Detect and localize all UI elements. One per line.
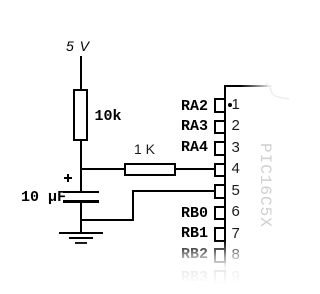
resistor R1 body xyxy=(73,89,88,141)
pin box 1 xyxy=(214,98,226,113)
pin number 5 xyxy=(232,183,240,198)
pin box 2 xyxy=(214,120,226,135)
ground symbol xyxy=(59,232,103,234)
node junction to 1K branch xyxy=(80,168,124,170)
IC U1 top edge (fades right) xyxy=(224,85,274,87)
pin box 3 xyxy=(214,141,226,156)
pin box 9 (faded) xyxy=(214,270,226,285)
pin number 9 (faded) xyxy=(232,269,240,284)
pin label RB3 (faded) xyxy=(181,270,208,285)
plus polarity mark of C1 xyxy=(64,177,72,179)
value label 10k xyxy=(95,109,122,124)
pin label RA2 xyxy=(181,99,208,114)
wire R1 bottom to capacitor C1 top xyxy=(80,140,82,192)
pin label RB0 xyxy=(181,206,208,221)
pin label RA3 xyxy=(181,119,208,134)
wire horizontal to pin 5 xyxy=(132,190,214,192)
pin label RA4 xyxy=(181,140,208,155)
pin number 3 xyxy=(232,140,240,155)
node junction below C1 to pin-5 branch xyxy=(80,219,134,221)
pin number 4 xyxy=(232,161,240,176)
pin number 8 xyxy=(232,247,240,262)
bottom fade overlay xyxy=(0,240,289,294)
IC notch faint arc xyxy=(260,80,289,105)
IC U1 left edge xyxy=(224,85,226,285)
wire vertical riser of pin-5 branch xyxy=(132,190,134,221)
pin box 5 xyxy=(214,184,226,199)
resistor R2 body (1K horizontal) xyxy=(124,163,176,176)
pin number 1 xyxy=(232,97,240,112)
power label 5 V xyxy=(66,39,90,53)
wire R2 right lead to pin 4 xyxy=(175,168,214,170)
pin box 7 xyxy=(214,227,226,242)
pin label RB2 xyxy=(181,247,208,262)
pin 1 marker dot xyxy=(228,103,232,107)
wire C1 bottom to ground junction xyxy=(80,202,82,232)
pin box 6 xyxy=(214,206,226,221)
pin box 4 xyxy=(214,163,226,178)
capacitor C1 bottom plate xyxy=(63,200,99,203)
pin label RB1 xyxy=(181,226,208,241)
wire from 5V to R1 top xyxy=(80,56,82,89)
pin box 8 xyxy=(214,248,226,263)
pin number 2 xyxy=(232,118,240,133)
value label 10 uF xyxy=(21,190,66,205)
pin number 6 xyxy=(232,204,240,219)
value label 1 K xyxy=(134,142,155,156)
IC part number PIC16C5X (rotated watermark) xyxy=(257,143,273,231)
pin number 7 xyxy=(232,226,240,241)
capacitor C1 top plate xyxy=(63,191,99,194)
